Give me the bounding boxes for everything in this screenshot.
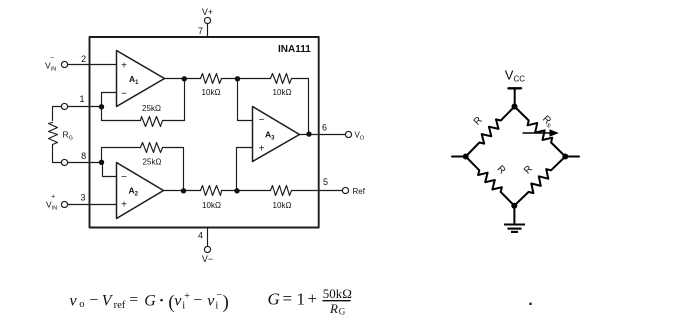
wire A1 output (165, 78, 201, 80)
junction A3 output (306, 131, 311, 136)
svg-text:o: o (79, 299, 84, 310)
resistor RG (49, 123, 58, 145)
resistor Rs top-right arm (515, 107, 566, 157)
svg-text:2: 2 (81, 54, 86, 64)
svg-text:v: v (174, 292, 182, 309)
wire pin1 to node G1 (53, 107, 62, 121)
svg-text:10kΩ: 10kΩ (273, 201, 292, 210)
svg-text:−: − (193, 292, 202, 309)
svg-text:4: 4 (198, 231, 203, 241)
resistor R bottom-left arm (466, 157, 515, 206)
svg-text:Rs: Rs (540, 114, 556, 130)
wire bottom node to ground (513, 206, 515, 224)
svg-text:R: R (472, 115, 485, 128)
svg-text:+: + (259, 143, 265, 154)
svg-text:+: + (121, 60, 127, 71)
svg-text:V: V (102, 292, 114, 309)
svg-text:G: G (144, 292, 156, 309)
bridge node left (463, 154, 469, 160)
wire right stub (568, 156, 579, 158)
resistor 10k bottom-left (201, 186, 222, 196)
svg-text:25kΩ: 25kΩ (143, 158, 162, 167)
wire RG to pin8 (53, 145, 62, 163)
svg-text:8: 8 (81, 151, 86, 161)
svg-text:VO: VO (355, 131, 365, 142)
svg-text:VIN−: VIN− (45, 55, 56, 73)
resistor 10k bottom-right (271, 186, 292, 196)
wire pin7 (207, 24, 209, 37)
svg-text:10kΩ: 10kΩ (202, 201, 221, 210)
op-amp A2 (117, 163, 164, 219)
svg-text:−: − (89, 292, 98, 309)
svg-text:RG: RG (63, 129, 73, 141)
resistor 10k top-right (271, 74, 292, 84)
svg-text:VCC: VCC (505, 68, 525, 84)
wire A2 output (164, 190, 201, 192)
pin 5 terminal (342, 187, 348, 193)
wire pin3 to A2 + input (68, 204, 117, 206)
svg-text:1: 1 (297, 290, 306, 309)
resistor 25k upper (141, 117, 163, 127)
formula G = 1 + 50k/RG (268, 286, 352, 316)
op-amp A1 (117, 51, 165, 107)
wire A2 - input (103, 163, 117, 177)
bridge node right (562, 154, 568, 160)
wire node N1 to A3 - input (238, 79, 253, 121)
junction N1 A3 minus (235, 76, 240, 81)
svg-text:10kΩ: 10kΩ (273, 88, 292, 97)
wire to node N1 (222, 78, 271, 80)
wire A1 feedback lower (102, 107, 141, 121)
wire pin4 (207, 228, 209, 247)
V+ terminal pin 7 (204, 17, 210, 23)
wire 25k to A2 output (163, 148, 184, 191)
junction node G2 (99, 160, 104, 165)
junction node G1 (99, 104, 104, 109)
svg-text:10kΩ: 10kΩ (202, 88, 221, 97)
wire to node N2 (222, 190, 271, 192)
svg-text:ref: ref (114, 300, 126, 311)
svg-text:V+: V+ (202, 7, 213, 17)
svg-text:VIN+: VIN+ (46, 194, 57, 212)
Vcc supply bar (509, 87, 522, 89)
pin 3 terminal (61, 201, 67, 207)
svg-text:A1: A1 (129, 74, 139, 86)
svg-text:G: G (339, 306, 346, 316)
svg-text:5: 5 (323, 177, 328, 187)
IC body INA111 (90, 37, 319, 228)
svg-text:A3: A3 (265, 129, 275, 141)
svg-text:+: + (184, 291, 190, 302)
svg-text:R: R (329, 301, 338, 316)
wire left stub (452, 156, 463, 158)
junction A1 output (182, 76, 187, 81)
svg-text:50kΩ: 50kΩ (323, 286, 352, 301)
svg-text:V−: V− (202, 254, 213, 264)
svg-text:=: = (129, 291, 138, 308)
wire pin8 to node G2 (68, 162, 102, 164)
ground (504, 225, 525, 232)
svg-text:+: + (121, 200, 127, 211)
svg-text:A2: A2 (129, 186, 139, 198)
resistor 25k lower (141, 143, 163, 153)
wire to pin 5 (292, 190, 343, 192)
svg-text:3: 3 (80, 192, 85, 202)
svg-text:+: + (308, 289, 318, 308)
pin 6 terminal (345, 131, 351, 137)
wire A3 + input (237, 148, 253, 191)
svg-text:−: − (259, 115, 265, 126)
junction A2 output (181, 188, 186, 193)
arrow across Rs (variable) (523, 129, 559, 136)
svg-text:v: v (70, 292, 78, 309)
svg-text:7: 7 (198, 26, 203, 36)
wire 25k to A1 output (163, 79, 185, 121)
pin 8 terminal (61, 159, 67, 165)
period (529, 303, 531, 305)
resistor R top-left arm (466, 107, 515, 157)
V- terminal pin 4 (204, 246, 210, 252)
bridge node top (512, 104, 518, 110)
pin 2 terminal (61, 61, 67, 67)
wire A1 - input (102, 93, 117, 107)
resistor R bottom-right arm (514, 157, 565, 206)
svg-text:R: R (522, 164, 535, 177)
svg-text:=: = (283, 289, 293, 308)
pin 1 terminal (61, 103, 67, 109)
resistor 10k top-left (201, 74, 222, 84)
svg-text:−: − (121, 89, 127, 100)
svg-text:1: 1 (79, 94, 84, 104)
svg-text:i: i (182, 300, 185, 311)
svg-text:−: − (216, 290, 222, 301)
svg-text:G: G (268, 290, 280, 309)
svg-text:v: v (207, 292, 215, 309)
svg-text:INA111: INA111 (278, 44, 311, 55)
svg-text:i: i (215, 300, 218, 311)
svg-text:Ref: Ref (353, 187, 366, 196)
wire pin2 to A1 + input (68, 64, 117, 66)
svg-text:·: · (159, 293, 164, 310)
bridge node bottom (511, 203, 517, 209)
op-amp A3 (253, 107, 300, 162)
svg-text:−: − (121, 172, 127, 183)
wire Vcc to top node (514, 88, 516, 106)
wire feedback to A3 output (292, 79, 309, 135)
svg-text:6: 6 (322, 123, 327, 133)
formula vo - Vref = G (vi+ - vi-) (70, 290, 229, 313)
svg-text:): ) (223, 293, 229, 313)
wire A2 feedback upper (102, 148, 141, 163)
svg-text:25kΩ: 25kΩ (142, 104, 161, 113)
junction N2 A3 plus (234, 188, 239, 193)
svg-text:R: R (495, 164, 508, 177)
wire A3 output pin 6 (300, 134, 346, 136)
